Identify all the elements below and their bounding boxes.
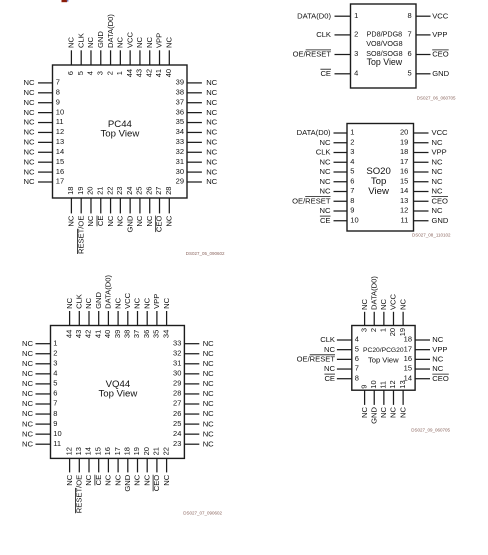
- svg-text:NC: NC: [203, 349, 214, 358]
- svg-text:39: 39: [176, 78, 184, 87]
- PC44 pin 27 (CEO) bottom wire: [159, 198, 161, 213]
- svg-text:VO8/VOG8: VO8/VOG8: [366, 39, 402, 48]
- svg-text:5: 5: [76, 71, 85, 75]
- SO20 pin 15 (NC) right wire: [414, 181, 429, 183]
- svg-text:PD8/PDG8: PD8/PDG8: [367, 29, 403, 38]
- VQ44 pin 36 (NC) top wire: [146, 311, 148, 326]
- PC44 pin 34 (NC) right wire: [187, 131, 202, 133]
- svg-text:NC: NC: [22, 339, 33, 348]
- svg-text:18: 18: [123, 447, 132, 455]
- svg-text:29: 29: [173, 379, 181, 388]
- svg-text:NC: NC: [104, 474, 113, 485]
- svg-text:NC: NC: [116, 37, 125, 48]
- svg-text:CLK: CLK: [76, 33, 85, 48]
- PC44 pin 24 (GND) bottom wire: [129, 198, 131, 213]
- PD8 pin 7 (VPP) right wire: [416, 34, 431, 36]
- svg-text:NC: NC: [379, 406, 388, 417]
- svg-text:NC: NC: [133, 474, 142, 485]
- svg-text:21: 21: [152, 447, 161, 455]
- svg-text:GND: GND: [369, 406, 378, 423]
- SO20 pin 7 (NC) left wire: [334, 191, 348, 193]
- svg-text:NC: NC: [133, 297, 142, 308]
- svg-text:15: 15: [404, 364, 412, 373]
- PC20 pin 19 (NC) top wire: [402, 312, 404, 326]
- PC44 pin 4 (NC) top wire: [90, 50, 92, 65]
- svg-text:NC: NC: [432, 187, 443, 196]
- svg-text:NC: NC: [203, 369, 214, 378]
- svg-text:18: 18: [400, 147, 408, 156]
- svg-text:DATA(D0): DATA(D0): [104, 275, 113, 309]
- svg-text:11: 11: [56, 117, 64, 126]
- svg-text:NC: NC: [22, 359, 33, 368]
- PC20 pin 9 (NC) bottom wire: [364, 390, 366, 405]
- svg-text:41: 41: [154, 69, 163, 77]
- svg-text:NC: NC: [84, 297, 93, 308]
- svg-text:41: 41: [93, 330, 102, 338]
- svg-text:40: 40: [164, 69, 173, 77]
- svg-text:CEO: CEO: [432, 374, 449, 383]
- svg-text:NC: NC: [22, 369, 33, 378]
- svg-text:1: 1: [379, 328, 388, 332]
- svg-text:2: 2: [350, 137, 354, 146]
- VQ44 pin 34 (NC) top wire: [166, 311, 168, 326]
- svg-text:NC: NC: [203, 359, 214, 368]
- PC44 pin 18 (NC) bottom wire: [70, 198, 72, 213]
- svg-text:17: 17: [56, 177, 64, 186]
- svg-text:4: 4: [86, 71, 95, 75]
- svg-text:36: 36: [142, 330, 151, 338]
- VQ44 pin 9 (NC) left wire: [36, 423, 51, 425]
- PC44 pin 42 (NC) top wire: [149, 50, 151, 65]
- svg-text:NC: NC: [432, 138, 443, 147]
- PC44 pin 22 (NC) bottom wire: [110, 198, 112, 213]
- PC20 pin 10 (GND) bottom wire: [373, 390, 375, 405]
- svg-text:NC: NC: [324, 345, 335, 354]
- svg-text:34: 34: [161, 330, 170, 338]
- PC20 pin 11 (NC) bottom wire: [383, 390, 385, 405]
- PC44 pin 36 (NC) right wire: [187, 112, 202, 114]
- PC44 pin 29 (NC) right wire: [187, 181, 202, 183]
- svg-text:3: 3: [96, 71, 105, 75]
- svg-text:1: 1: [350, 128, 354, 137]
- svg-text:VCC: VCC: [432, 11, 449, 20]
- svg-text:NC: NC: [203, 439, 214, 448]
- svg-text:31: 31: [173, 359, 181, 368]
- svg-text:NC: NC: [360, 299, 369, 310]
- VQ44 pin 30 (NC) right wire: [184, 373, 199, 375]
- svg-text:11: 11: [401, 215, 409, 224]
- svg-text:NC: NC: [360, 406, 369, 417]
- svg-text:NC: NC: [67, 37, 76, 48]
- SO20 pin 11 (GND) right wire: [414, 220, 429, 222]
- svg-text:NC: NC: [24, 148, 35, 157]
- svg-text:NC: NC: [145, 215, 154, 226]
- svg-text:NC: NC: [203, 429, 214, 438]
- svg-text:NC: NC: [389, 406, 398, 417]
- svg-text:1: 1: [354, 11, 358, 20]
- PC44 pin 37 (NC) right wire: [187, 102, 202, 104]
- svg-text:11: 11: [53, 439, 61, 448]
- svg-text:NC: NC: [324, 364, 335, 373]
- svg-text:12: 12: [388, 380, 397, 388]
- VQ44 pin 4 (NC) left wire: [36, 373, 51, 375]
- svg-text:Top View: Top View: [101, 129, 140, 140]
- svg-text:22: 22: [161, 447, 170, 455]
- svg-text:3: 3: [359, 328, 368, 332]
- PC44 pin 23 (NC) bottom wire: [119, 198, 121, 213]
- VQ44 pin 20 (NC) bottom wire: [146, 458, 148, 472]
- svg-text:4: 4: [355, 335, 359, 344]
- svg-text:NC: NC: [24, 118, 35, 127]
- PC44 pin 32 (NC) right wire: [187, 151, 202, 153]
- svg-text:25: 25: [173, 419, 181, 428]
- svg-text:9: 9: [359, 385, 368, 389]
- svg-text:26: 26: [144, 187, 153, 195]
- svg-text:43: 43: [135, 69, 144, 77]
- svg-text:18: 18: [66, 187, 75, 195]
- SO20 pin 12 (NC) right wire: [414, 210, 429, 212]
- VQ44 pin 5 (NC) left wire: [36, 383, 51, 385]
- svg-text:View: View: [368, 186, 389, 197]
- svg-text:10: 10: [350, 215, 358, 224]
- svg-text:Top View: Top View: [99, 389, 138, 400]
- svg-text:NC: NC: [379, 299, 388, 310]
- svg-text:9: 9: [350, 206, 354, 215]
- svg-text:36: 36: [176, 107, 184, 116]
- VQ44 pin 44 (NC) top wire: [69, 311, 71, 326]
- svg-text:NC: NC: [206, 177, 217, 186]
- svg-text:NC: NC: [86, 37, 95, 48]
- svg-text:4: 4: [354, 69, 358, 78]
- svg-text:NC: NC: [206, 128, 217, 137]
- svg-text:CEO: CEO: [432, 50, 449, 59]
- svg-text:26: 26: [173, 409, 181, 418]
- svg-text:CE: CE: [320, 69, 331, 78]
- PC44 pin 13 (NC) left wire: [38, 141, 53, 143]
- svg-text:NC: NC: [320, 187, 331, 196]
- svg-text:30: 30: [176, 167, 184, 176]
- svg-text:13: 13: [400, 196, 408, 205]
- PC20 pin 16 (NC) right wire: [415, 358, 430, 360]
- svg-text:NC: NC: [24, 78, 35, 87]
- svg-text:8: 8: [56, 88, 60, 97]
- svg-text:28: 28: [164, 187, 173, 195]
- svg-text:NC: NC: [320, 177, 331, 186]
- PD8 pin 4 (CE) left wire: [335, 73, 351, 75]
- svg-text:32: 32: [176, 147, 184, 156]
- VQ44 pin 1 (NC) left wire: [36, 343, 51, 345]
- PC20 pin 13 (NC) bottom wire: [402, 390, 404, 405]
- SO20 pin 4 (NC) left wire: [334, 161, 348, 163]
- svg-text:17: 17: [113, 447, 122, 455]
- svg-text:8: 8: [53, 409, 57, 418]
- svg-text:DATA(D0): DATA(D0): [369, 276, 378, 310]
- PC44 pin 43 (NC) top wire: [139, 50, 141, 65]
- svg-text:NC: NC: [86, 215, 95, 226]
- PC44 pin 3 (GND) top wire: [100, 50, 102, 65]
- svg-text:20: 20: [86, 187, 95, 195]
- svg-text:4: 4: [350, 157, 354, 166]
- svg-text:NC: NC: [116, 215, 125, 226]
- svg-text:CLK: CLK: [316, 30, 331, 39]
- svg-text:NC: NC: [206, 88, 217, 97]
- SO20 pin 6 (NC) left wire: [334, 181, 348, 183]
- svg-text:DS027_06_060705: DS027_06_060705: [417, 96, 456, 101]
- PC20 pin 8 (CE) left wire: [337, 378, 352, 380]
- svg-text:NC: NC: [145, 37, 154, 48]
- svg-text:NC: NC: [162, 297, 171, 308]
- VQ44 pin 8 (NC) left wire: [36, 413, 51, 415]
- svg-text:24: 24: [173, 429, 181, 438]
- svg-text:20: 20: [142, 447, 151, 455]
- VQ44 pin 37 (NC) top wire: [137, 311, 139, 326]
- svg-text:CLK: CLK: [75, 294, 84, 309]
- svg-text:NC: NC: [206, 157, 217, 166]
- SO20 pin 19 (NC) right wire: [414, 142, 429, 144]
- PC44 pin 12 (NC) left wire: [38, 131, 53, 133]
- svg-text:19: 19: [132, 447, 141, 455]
- VQ44 pin 39 (NC) top wire: [117, 311, 119, 326]
- svg-text:7: 7: [350, 186, 354, 195]
- svg-text:GND: GND: [125, 215, 134, 232]
- svg-text:20: 20: [400, 128, 408, 137]
- PC44 pin 5 (CLK) top wire: [80, 50, 82, 65]
- svg-text:GND: GND: [96, 31, 105, 48]
- svg-text:NC: NC: [24, 108, 35, 117]
- svg-text:NC: NC: [22, 439, 33, 448]
- PD8 pin 2 (CLK) left wire: [335, 34, 351, 36]
- PC20 pin 5 (NC) left wire: [337, 349, 352, 351]
- svg-text:14: 14: [84, 447, 93, 455]
- SO20 pin 5 (NC) left wire: [334, 171, 348, 173]
- svg-text:3: 3: [350, 147, 354, 156]
- svg-text:OE/RESET: OE/RESET: [293, 50, 332, 59]
- svg-text:42: 42: [144, 69, 153, 77]
- svg-text:CE: CE: [320, 216, 331, 225]
- svg-text:23: 23: [173, 439, 181, 448]
- svg-text:12: 12: [56, 127, 64, 136]
- svg-text:DATA(D0): DATA(D0): [106, 14, 115, 48]
- VQ44 pin 3 (NC) left wire: [36, 363, 51, 365]
- svg-text:33: 33: [173, 338, 181, 347]
- svg-text:38: 38: [123, 330, 132, 338]
- svg-text:VPP: VPP: [432, 30, 447, 39]
- VQ44 pin 32 (NC) right wire: [184, 353, 199, 355]
- SO20 pin 8 (OE/RESET) left wire: [334, 200, 348, 202]
- svg-text:7: 7: [53, 399, 57, 408]
- SO20 package outline: [347, 124, 414, 232]
- svg-text:NC: NC: [206, 78, 217, 87]
- svg-text:33: 33: [176, 137, 184, 146]
- svg-text:NC: NC: [432, 157, 443, 166]
- svg-text:20: 20: [388, 328, 397, 336]
- svg-text:NC: NC: [206, 148, 217, 157]
- svg-text:NC: NC: [206, 118, 217, 127]
- VQ44 pin 10 (NC) left wire: [36, 433, 51, 435]
- svg-text:5: 5: [350, 167, 354, 176]
- PC44 package outline: [53, 65, 188, 198]
- svg-text:DS027_05_090602: DS027_05_090602: [186, 251, 225, 256]
- svg-text:6: 6: [53, 389, 57, 398]
- svg-text:16: 16: [400, 167, 408, 176]
- svg-text:8: 8: [408, 11, 412, 20]
- PD8/SO8 package outline: [351, 4, 417, 88]
- PC44 pin 28 (NC) bottom wire: [168, 198, 170, 213]
- VQ44 pin 16 (NC) bottom wire: [107, 458, 109, 472]
- svg-text:NC: NC: [22, 419, 33, 428]
- svg-text:NC: NC: [24, 157, 35, 166]
- svg-text:NC: NC: [203, 389, 214, 398]
- svg-text:42: 42: [84, 330, 93, 338]
- svg-text:38: 38: [176, 88, 184, 97]
- PC44 pin 9 (NC) left wire: [38, 102, 53, 104]
- PC44 pin 30 (NC) right wire: [187, 171, 202, 173]
- svg-text:DS027_09_060705: DS027_09_060705: [411, 428, 450, 433]
- VQ44 pin 11 (NC) left wire: [36, 443, 51, 445]
- svg-text:1: 1: [115, 71, 124, 75]
- svg-text:4: 4: [53, 369, 57, 378]
- SO20 pin 2 (NC) left wire: [334, 142, 348, 144]
- svg-text:30: 30: [173, 369, 181, 378]
- PD8 pin 3 (OE/RESET) left wire: [335, 54, 351, 56]
- VQ44 pin 29 (NC) right wire: [184, 383, 199, 385]
- svg-text:8: 8: [350, 196, 354, 205]
- PC44 pin 39 (NC) right wire: [187, 82, 202, 84]
- PC44 pin 8 (NC) left wire: [38, 92, 53, 94]
- svg-text:15: 15: [56, 157, 64, 166]
- svg-text:44: 44: [64, 330, 73, 338]
- svg-text:GND: GND: [432, 69, 449, 78]
- svg-text:5: 5: [408, 69, 412, 78]
- svg-text:2: 2: [369, 328, 378, 332]
- svg-text:NC: NC: [432, 355, 443, 364]
- svg-text:NC: NC: [142, 474, 151, 485]
- PC44 pin 17 (NC) left wire: [38, 181, 53, 183]
- svg-text:27: 27: [154, 187, 163, 195]
- SO20 pin 20 (VCC) right wire: [414, 132, 429, 134]
- PC20 pin 15 (NC) right wire: [415, 368, 430, 370]
- svg-text:14: 14: [56, 147, 64, 156]
- PC20 pin 4 (CLK) left wire: [337, 339, 352, 341]
- PD8 pin 8 (VCC) right wire: [416, 15, 431, 17]
- svg-text:44: 44: [125, 69, 134, 77]
- PC44 pin 38 (NC) right wire: [187, 92, 202, 94]
- svg-text:NC: NC: [432, 335, 443, 344]
- SO20 pin 9 (NC) left wire: [334, 210, 348, 212]
- PC44 pin 2 (DATA(D0)) top wire: [110, 50, 112, 65]
- svg-text:NC: NC: [22, 379, 33, 388]
- svg-text:GND: GND: [123, 474, 132, 491]
- svg-text:2: 2: [53, 348, 57, 357]
- svg-text:NC: NC: [432, 364, 443, 373]
- svg-text:31: 31: [176, 157, 184, 166]
- svg-text:CLK: CLK: [320, 335, 335, 344]
- svg-text:35: 35: [152, 330, 161, 338]
- svg-text:CEO: CEO: [432, 196, 449, 205]
- PC44 pin 20 (NC) bottom wire: [90, 198, 92, 213]
- svg-text:Top View: Top View: [367, 57, 403, 67]
- VQ44 pin 12 (NC) bottom wire: [69, 458, 71, 472]
- PC20 pin 20 (VCC) top wire: [392, 312, 394, 326]
- svg-text:2: 2: [105, 71, 114, 75]
- svg-text:13: 13: [56, 137, 64, 146]
- PC44 pin 1 (NC) top wire: [119, 50, 121, 65]
- svg-text:NC: NC: [22, 389, 33, 398]
- svg-text:Top View: Top View: [368, 356, 399, 365]
- svg-text:NC: NC: [113, 474, 122, 485]
- svg-text:9: 9: [53, 419, 57, 428]
- svg-text:12: 12: [400, 206, 408, 215]
- svg-text:3: 3: [53, 359, 57, 368]
- svg-text:NC: NC: [203, 339, 214, 348]
- VQ44 pin 24 (NC) right wire: [184, 433, 199, 435]
- svg-text:NC: NC: [84, 474, 93, 485]
- svg-text:NC: NC: [206, 167, 217, 176]
- svg-text:27: 27: [173, 399, 181, 408]
- svg-text:6: 6: [355, 354, 359, 363]
- svg-text:OE/RESET: OE/RESET: [292, 196, 331, 205]
- svg-text:6: 6: [66, 71, 75, 75]
- svg-text:9: 9: [56, 97, 60, 106]
- svg-text:5: 5: [53, 379, 57, 388]
- VQ44 pin 21 (CEO) bottom wire: [156, 458, 158, 472]
- svg-text:7: 7: [408, 30, 412, 39]
- VQ44 pin 14 (NC) bottom wire: [88, 458, 90, 472]
- svg-text:VPP: VPP: [152, 294, 161, 309]
- svg-text:39: 39: [113, 330, 122, 338]
- svg-text:GND: GND: [432, 216, 449, 225]
- VQ44 pin 26 (NC) right wire: [184, 413, 199, 415]
- svg-text:13: 13: [74, 447, 83, 455]
- svg-text:16: 16: [56, 167, 64, 176]
- PC20 pin 6 (OE/RESET) left wire: [337, 358, 352, 360]
- svg-text:NC: NC: [135, 37, 144, 48]
- svg-text:NC: NC: [432, 167, 443, 176]
- svg-text:19: 19: [76, 187, 85, 195]
- svg-text:37: 37: [132, 330, 141, 338]
- svg-text:NC: NC: [113, 297, 122, 308]
- svg-text:NC: NC: [165, 215, 174, 226]
- svg-text:15: 15: [93, 447, 102, 455]
- VQ44 pin 23 (NC) right wire: [184, 443, 199, 445]
- PC44 pin 21 (CE) bottom wire: [100, 198, 102, 213]
- VQ44 pin 13 (RESET/OE) bottom wire: [78, 458, 80, 472]
- PC44 pin 33 (NC) right wire: [187, 141, 202, 143]
- svg-text:VPP: VPP: [432, 345, 447, 354]
- VQ44 pin 38 (VCC) top wire: [127, 311, 129, 326]
- svg-text:37: 37: [176, 97, 184, 106]
- svg-text:7: 7: [355, 364, 359, 373]
- PC44 pin 7 (NC) left wire: [38, 82, 53, 84]
- svg-text:NC: NC: [320, 157, 331, 166]
- PC44 pin 35 (NC) right wire: [187, 122, 202, 124]
- VQ44 pin 25 (NC) right wire: [184, 423, 199, 425]
- svg-text:DS027_08_110102: DS027_08_110102: [412, 233, 451, 238]
- VQ44 package outline: [51, 326, 185, 459]
- VQ44 pin 18 (GND) bottom wire: [127, 458, 129, 472]
- svg-text:NC: NC: [320, 206, 331, 215]
- svg-text:NC: NC: [398, 406, 407, 417]
- svg-text:NC: NC: [22, 349, 33, 358]
- PD8 pin 5 (GND) right wire: [416, 73, 431, 75]
- svg-text:NC: NC: [135, 215, 144, 226]
- svg-text:NC: NC: [142, 297, 151, 308]
- PC20 pin 3 (NC) top wire: [364, 312, 366, 326]
- svg-text:28: 28: [173, 389, 181, 398]
- svg-text:NC: NC: [22, 409, 33, 418]
- svg-text:GND: GND: [94, 292, 103, 309]
- VQ44 pin 31 (NC) right wire: [184, 363, 199, 365]
